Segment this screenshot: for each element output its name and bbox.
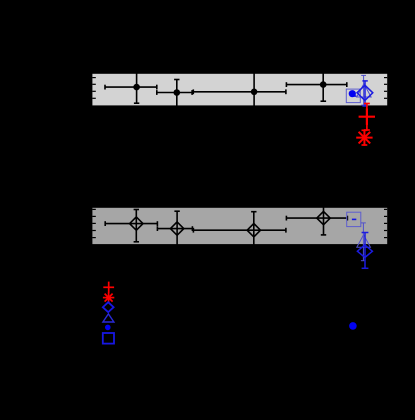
point P1 error bars (105, 71, 157, 103)
point D4 error bars (286, 201, 347, 235)
blue filled circle (bottom panel, below band) (349, 322, 357, 330)
blue open square (bottom cluster) (347, 212, 361, 226)
thick blue error bar (bottom diamond point) (362, 233, 369, 269)
bottom gray band (92, 208, 387, 244)
thick blue error bar (top diamond point) (362, 81, 367, 106)
point D2 marker (open diamond) (170, 222, 183, 235)
blue filled circle (top cluster) (349, 90, 356, 97)
blue dash inside top square (352, 95, 356, 97)
blue dash inside bottom square (352, 218, 356, 220)
thin blue triangle marker (bottom) (357, 235, 371, 248)
thick blue open diamond marker (top) (357, 85, 373, 100)
thin blue error bar (top triangle point) (361, 75, 366, 105)
red asterisk marker (356, 129, 372, 145)
thick blue open diamond marker (bottom) (357, 245, 372, 258)
top band left minor ticks (92, 78, 95, 99)
point D1 marker (open diamond) (130, 217, 143, 230)
thin blue triangle marker (top) (357, 84, 371, 97)
point P1 marker (133, 84, 140, 91)
legend: blue open square marker (103, 333, 114, 344)
top band right minor ticks (384, 78, 387, 99)
point P2 error bars (157, 80, 192, 109)
point D3 error bars (193, 212, 286, 249)
legend: blue filled circle marker (105, 325, 111, 331)
red error bar (plus point, top) (364, 104, 370, 131)
point D2 error bars (157, 211, 192, 246)
point P4 error bars (286, 68, 346, 101)
point P4 marker (320, 81, 327, 88)
point P3 marker (251, 89, 258, 96)
red error bar (asterisk point, top) (362, 130, 368, 145)
legend: blue open diamond marker (103, 302, 114, 312)
bottom band left minor ticks (92, 209, 95, 237)
point P3 error bars (193, 69, 286, 110)
point D4 marker (open diamond) (317, 211, 330, 224)
point D1 error bars (105, 210, 157, 242)
point D3 marker (open diamond) (247, 224, 260, 237)
red plus marker (359, 109, 375, 125)
blue open square (top cluster) (346, 89, 360, 103)
legend: blue open triangle marker (103, 314, 114, 322)
bottom band right minor ticks (384, 209, 387, 237)
top gray band (92, 74, 387, 106)
thin blue error bar (bottom triangle point) (361, 223, 366, 261)
point P2 marker (174, 89, 181, 96)
legend: red plus marker (103, 282, 114, 293)
legend: red asterisk marker (103, 293, 114, 303)
